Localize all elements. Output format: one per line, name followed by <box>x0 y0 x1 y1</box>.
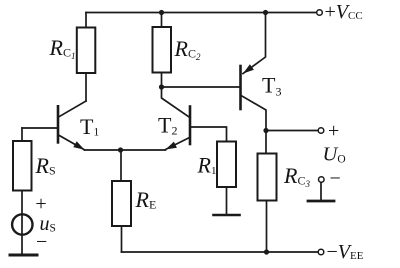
svg-text:RC3: RC3 <box>283 163 310 189</box>
svg-text:RC1: RC1 <box>49 35 76 61</box>
svg-text:R1: R1 <box>197 153 217 178</box>
svg-text:T3: T3 <box>262 72 281 98</box>
svg-text:T1: T1 <box>80 114 99 139</box>
svg-text:−VEE: −VEE <box>327 241 364 263</box>
svg-text:RE: RE <box>135 187 157 212</box>
svg-text:+VCC: +VCC <box>325 1 363 23</box>
svg-text:−: − <box>330 168 341 190</box>
svg-text:RS: RS <box>35 153 56 178</box>
svg-text:T2: T2 <box>158 113 177 138</box>
svg-text:UO: UO <box>323 143 346 165</box>
svg-text:+: + <box>328 120 339 142</box>
svg-text:+: + <box>35 193 46 215</box>
svg-text:RC2: RC2 <box>174 36 201 62</box>
svg-text:uS: uS <box>40 213 56 235</box>
